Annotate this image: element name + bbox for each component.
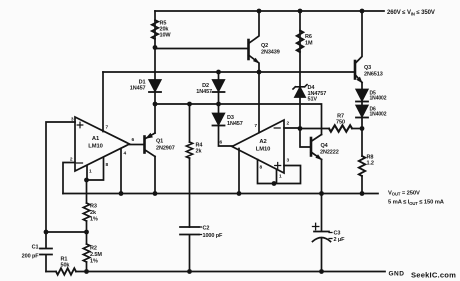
wire R5 column / D1 column (VIN corner down to D1 node) xyxy=(154,11,156,104)
wire divider node link xyxy=(46,231,87,233)
resistor R2 2.5M 1% xyxy=(83,244,89,262)
resistor R6 1M xyxy=(297,31,303,53)
A2 plus minus marks xyxy=(274,128,281,169)
diode D3 1N457 xyxy=(213,114,225,126)
wire A2 pin2 stub xyxy=(284,127,300,129)
capacitor C3 leader ticks xyxy=(329,233,332,239)
wire Q4 base from A2 pin2 node xyxy=(300,129,310,148)
transistor Q3 2N6513 xyxy=(355,61,363,83)
svg-text:6: 6 xyxy=(220,140,223,146)
svg-text:1: 1 xyxy=(89,169,92,175)
svg-text:8: 8 xyxy=(260,165,263,171)
svg-text:3: 3 xyxy=(287,158,290,164)
A1 plus minus marks xyxy=(77,122,83,163)
svg-text:7: 7 xyxy=(106,125,109,131)
wire D2/D3 column xyxy=(219,72,233,146)
wire VOUT rail xyxy=(63,193,378,195)
wire R6/D4 column xyxy=(299,11,301,129)
svg-text:1N4002: 1N4002 xyxy=(370,112,387,118)
svg-text:2N6513: 2N6513 xyxy=(364,72,383,78)
wire top supply rail xyxy=(155,10,384,12)
capacitor C2 xyxy=(180,227,199,272)
resistor R8 1.2 xyxy=(359,156,365,176)
diode D2 1N457 xyxy=(213,80,225,92)
svg-text:C3: C3 xyxy=(334,231,341,237)
wire A2 pin 7 riser from Q2 emitter node xyxy=(258,72,260,133)
wire A1 output to Q1 base xyxy=(130,144,144,146)
wire R5 bottom node to Q2 base xyxy=(155,48,247,50)
svg-text:VOUT = 250V: VOUT = 250V xyxy=(388,190,420,196)
svg-text:1000 pF: 1000 pF xyxy=(203,233,224,239)
diode D1 1N457 xyxy=(149,80,161,92)
svg-text:1N4002: 1N4002 xyxy=(370,96,387,102)
svg-text:Q3: Q3 xyxy=(364,65,371,71)
svg-text:260V ≤ VIN ≤ 350V: 260V ≤ VIN ≤ 350V xyxy=(387,10,435,16)
wire A1 pin2 feedback to VOUT rail xyxy=(63,163,75,194)
wire R2 leads xyxy=(86,232,88,272)
wire R4/C2 column xyxy=(189,104,191,227)
wire A1 pin1/pin8 tie xyxy=(87,158,104,181)
wire A2 output down to VOUT rail xyxy=(238,149,240,194)
capacitor C3 xyxy=(313,194,331,272)
svg-text:750: 750 xyxy=(336,120,345,126)
svg-text:A2: A2 xyxy=(259,139,266,145)
svg-text:C2: C2 xyxy=(203,226,210,232)
wire ground rail xyxy=(46,271,385,273)
wire V+ line (Q2 emitter rail to A1 pin7 and Q3 base) xyxy=(103,71,354,73)
capacitor C1 xyxy=(40,232,52,272)
capacitor C1 leader ticks xyxy=(40,249,43,255)
op-amp A2 xyxy=(232,120,284,173)
svg-text:Q4: Q4 xyxy=(321,143,329,149)
transistor Q2 2N3439 xyxy=(249,11,260,72)
wire R3 leads xyxy=(86,180,88,232)
svg-text:50k: 50k xyxy=(61,263,71,269)
svg-text:4: 4 xyxy=(124,151,127,157)
svg-text:LM10: LM10 xyxy=(256,147,270,153)
svg-text:200 pF: 200 pF xyxy=(22,254,40,260)
wire Q4 emitter down to VOUT rail xyxy=(321,160,323,194)
svg-text:2N2222: 2N2222 xyxy=(320,150,339,156)
svg-text:R6: R6 xyxy=(305,34,312,40)
svg-text:R2: R2 xyxy=(90,246,97,252)
svg-text:2: 2 xyxy=(287,121,290,127)
resistor R5 20k 10W xyxy=(152,20,158,39)
resistor R7 750 xyxy=(329,125,352,131)
svg-text:1%: 1% xyxy=(90,217,98,223)
wire R7 left lead from A2 pin2 node xyxy=(300,128,329,130)
wire Q3 collector riser xyxy=(355,11,362,64)
svg-text:8: 8 xyxy=(106,162,109,168)
svg-text:51V: 51V xyxy=(308,96,318,102)
svg-text:1M: 1M xyxy=(305,41,313,47)
svg-text:2: 2 xyxy=(70,157,73,163)
svg-text:1N457: 1N457 xyxy=(196,89,212,95)
svg-text:C1: C1 xyxy=(32,245,39,251)
svg-text:SeekIC.com: SeekIC.com xyxy=(411,271,456,280)
svg-text:1: 1 xyxy=(279,174,282,180)
transistor Q4 2N2222 xyxy=(311,135,322,161)
wire R8 leads xyxy=(361,129,363,194)
wire A1 pin4 riser to VOUT rail xyxy=(120,149,122,194)
wire Q3 emitter / D5 D6 column xyxy=(361,83,363,129)
svg-text:R3: R3 xyxy=(90,204,97,210)
capacitor C2 leader ticks xyxy=(199,227,202,235)
svg-text:6: 6 xyxy=(132,137,135,143)
diode D6 1N4002 xyxy=(356,106,368,118)
svg-text:2N2907: 2N2907 xyxy=(156,146,175,152)
wire Q1 collector down to VOUT rail xyxy=(154,157,156,194)
svg-text:LM10: LM10 xyxy=(88,144,102,150)
wire A1 pin 7 riser xyxy=(102,72,104,132)
svg-text:2N3439: 2N3439 xyxy=(261,50,280,56)
svg-text:1N457: 1N457 xyxy=(130,86,146,92)
svg-text:2k: 2k xyxy=(90,210,97,216)
C3 plus sign xyxy=(313,223,319,229)
wire A2 pin3/pin8/pin1 tie loop xyxy=(258,160,301,184)
svg-text:7: 7 xyxy=(254,123,257,129)
wire R7 right lead to D6/R8 node xyxy=(352,128,362,130)
resistor R4 2k xyxy=(186,142,192,158)
svg-text:10W: 10W xyxy=(160,33,172,39)
svg-text:2.5M: 2.5M xyxy=(90,252,102,258)
resistor R1 50k xyxy=(56,268,76,274)
wire Q1 emitter column xyxy=(154,104,156,133)
svg-text:2 μF: 2 μF xyxy=(334,237,346,243)
svg-text:2k: 2k xyxy=(196,149,203,155)
svg-text:A1: A1 xyxy=(92,136,100,142)
op-amp A1 xyxy=(75,117,130,171)
svg-text:Q1: Q1 xyxy=(156,139,163,145)
resistor R3 2k 1% xyxy=(83,203,89,221)
diode D5 1N4002 xyxy=(356,90,368,102)
svg-text:1N457: 1N457 xyxy=(227,121,243,127)
wire A1 pin3 to divider node xyxy=(46,122,75,232)
svg-text:5 mA ≤ IOUT ≤ 150 mA: 5 mA ≤ IOUT ≤ 150 mA xyxy=(388,200,445,206)
svg-text:GND: GND xyxy=(389,271,405,278)
wire D1/D2 cathode bus (node line to Q4 collector corner) xyxy=(155,104,322,135)
svg-text:Q2: Q2 xyxy=(261,43,268,49)
svg-text:3: 3 xyxy=(71,117,74,123)
svg-text:1%: 1% xyxy=(90,259,98,265)
svg-text:1.2: 1.2 xyxy=(367,161,374,167)
transistor Q1 2N2907 xyxy=(145,133,156,157)
zener diode D4 1N4757 xyxy=(293,85,307,97)
